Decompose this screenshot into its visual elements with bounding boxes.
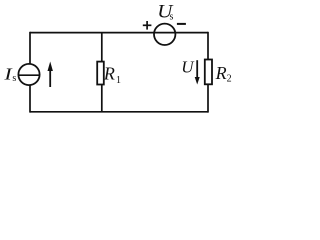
wire middle branch upper segment	[101, 33, 103, 63]
svg-text:R: R	[103, 64, 115, 84]
label Us	[157, 1, 174, 22]
resistor R1	[97, 62, 104, 85]
wire bottom (common bottom node)	[30, 111, 208, 113]
label Is	[3, 65, 16, 84]
current source Is (circle with bar)	[18, 64, 39, 85]
current direction arrow (up)	[48, 62, 53, 88]
wire middle branch lower segment	[101, 84, 103, 112]
minus polarity mark	[177, 23, 186, 25]
voltage source Us (circle on top wire)	[154, 24, 175, 45]
svg-text:1: 1	[116, 75, 121, 86]
plus polarity mark	[143, 21, 152, 30]
wire left upper segment	[29, 32, 31, 64]
svg-text:s: s	[12, 73, 16, 84]
voltage arrow U (down)	[195, 60, 200, 84]
label R2	[215, 63, 232, 84]
svg-text:2: 2	[227, 74, 232, 85]
wire top (node from Is/R1 top to Us and R2 top)	[30, 32, 208, 34]
resistor R2	[205, 60, 212, 85]
wire right upper segment	[207, 32, 209, 60]
wire right lower segment	[207, 84, 209, 113]
label R1	[103, 64, 121, 86]
wire left lower segment	[29, 85, 31, 113]
svg-text:s: s	[170, 11, 174, 22]
svg-text:R: R	[215, 63, 227, 83]
svg-text:U: U	[181, 58, 195, 77]
